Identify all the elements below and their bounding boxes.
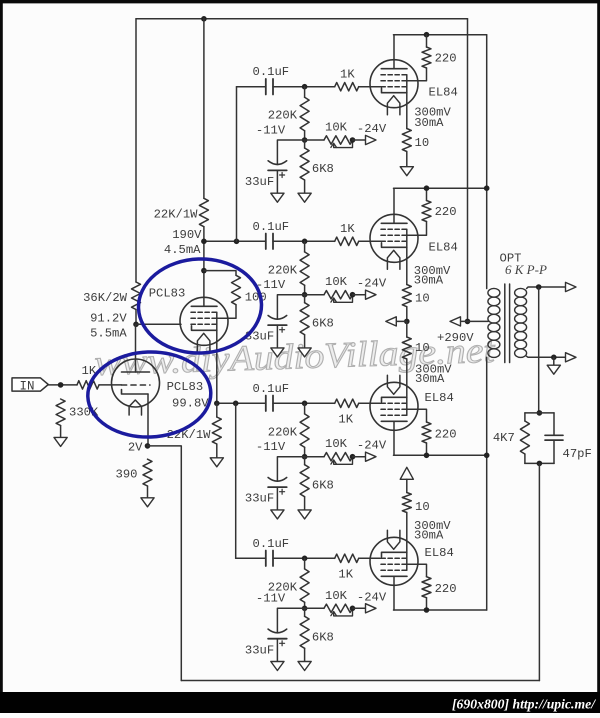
wire stage 1 coupling input <box>237 86 266 88</box>
wire stage 3 grid node <box>273 402 335 404</box>
svg-text:-24V: -24V <box>357 439 387 453</box>
wire pentode plate lead <box>203 241 205 306</box>
ground 390 <box>141 498 154 507</box>
ground 6K8 stage 3 <box>298 510 311 519</box>
resistor 1K grid stopper stage 3 <box>335 399 359 407</box>
tube EL84 stage 1 <box>370 60 418 108</box>
wire 10 to stage 4 cathode <box>406 513 408 553</box>
wire junction to left arrow <box>396 320 407 322</box>
node 10K wiper stage 3 <box>350 454 356 460</box>
node triode plate / pentode grid <box>133 322 139 328</box>
connector stage 4 cathode up arrow <box>400 467 413 479</box>
svg-text:PCL83: PCL83 <box>167 380 204 394</box>
connector output top arrow <box>566 282 577 291</box>
wire 10K to -24V arrow stage 3 <box>353 456 366 458</box>
ground secondary <box>547 365 560 374</box>
svg-text:-11V: -11V <box>256 123 286 137</box>
wire 10 to stage 3 cathode <box>406 359 408 397</box>
svg-text:99.8V: 99.8V <box>172 396 209 410</box>
wire 220 to rail stage 4 <box>426 598 428 610</box>
tube EL84 stage 2 <box>370 214 418 262</box>
svg-text:30mA: 30mA <box>414 529 444 543</box>
node stage 3 rail / OPT feed <box>484 453 490 459</box>
node stage 3 rail / 220 <box>424 453 430 459</box>
resistor 220K stage 4 <box>300 569 309 602</box>
svg-text:220K: 220K <box>268 109 298 123</box>
wire screen lead stage 3 <box>407 409 427 422</box>
resistor 6K8 stage 2 <box>300 303 309 335</box>
node stage 3 grid node <box>302 401 308 407</box>
wire stage 2 coupling input <box>204 240 266 242</box>
svg-text:190V: 190V <box>172 228 202 242</box>
resistor 10 cathode stage 2 <box>402 285 411 307</box>
svg-text:-24V: -24V <box>357 277 387 291</box>
node +290V cathode junction <box>404 319 410 325</box>
connector -24V stage 1 <box>366 135 377 144</box>
node zobel top <box>537 410 543 416</box>
svg-text:10K: 10K <box>325 589 348 603</box>
wire stage 3 220K upper <box>304 403 306 414</box>
svg-text:220K: 220K <box>268 425 298 439</box>
ground input 330K <box>54 437 67 446</box>
svg-text:30mA: 30mA <box>415 372 445 386</box>
wire 1K to grid stage 1 <box>359 86 382 88</box>
svg-text:6 K P-P: 6 K P-P <box>505 262 547 277</box>
svg-text:-11V: -11V <box>256 440 286 454</box>
node +290V on OPT feed <box>465 319 471 325</box>
connector -24V stage 3 <box>366 452 377 461</box>
wire +290V to OPT center tap <box>468 320 489 322</box>
wire 4K7 to bottom <box>524 454 526 463</box>
resistor 1K input <box>77 381 99 389</box>
tube PCL83 pentode <box>180 297 228 345</box>
svg-text:6K8: 6K8 <box>312 317 334 331</box>
node stage 4 rail / 220 <box>424 607 430 613</box>
potentiometer 10K stage 4 <box>324 604 353 612</box>
svg-text:2V: 2V <box>128 440 143 454</box>
wire 22K/1W feed <box>203 19 205 199</box>
wire 33uF to ground stage 4 <box>276 639 278 662</box>
node stage 2 rail / OPT feed <box>484 185 490 191</box>
wire 10K to -24V arrow stage 4 <box>353 607 366 609</box>
wire 1K to grid stage 2 <box>359 240 382 242</box>
svg-text:390: 390 <box>116 467 138 481</box>
node -11V bias stage 4 <box>302 606 308 612</box>
wire 220K to bias node stage 2 <box>304 285 306 294</box>
node stage 4 grid node <box>302 556 308 562</box>
wire 100 to pentode screen <box>217 305 236 319</box>
wire stage 2 cathode <box>406 247 408 284</box>
wire 220K to bias node stage 1 <box>304 131 306 140</box>
wire stage 4 coupling input <box>236 557 266 559</box>
svg-text:1K: 1K <box>338 412 353 426</box>
wire stage 1 cathode <box>406 93 408 129</box>
capacitor 0.1uF stage 2 <box>265 234 267 250</box>
svg-text:0.1uF: 0.1uF <box>253 65 290 79</box>
wire 36K to node <box>135 310 137 325</box>
wire stage 2 plate rail <box>394 187 487 189</box>
svg-text:100: 100 <box>245 291 267 305</box>
wire 390 to ground <box>147 486 149 498</box>
wire 10 to ground stage 1 <box>406 152 408 167</box>
svg-text:220: 220 <box>435 582 457 596</box>
node 2V cathode node <box>145 443 151 449</box>
svg-text:91.2V: 91.2V <box>90 311 127 325</box>
resistor 220K stage 3 <box>300 414 309 447</box>
wire arrow to 10 stage 4 <box>406 479 408 492</box>
resistor 220K stage 1 <box>300 97 309 130</box>
resistor 10 cathode stage 3 <box>402 337 411 359</box>
connector +290V left arrow <box>450 317 461 326</box>
wire stage 2 grid node <box>273 240 335 242</box>
wire plate lead stage 3 <box>393 421 395 455</box>
resistor 6K8 stage 4 <box>300 616 309 648</box>
tube EL84 stage 3 <box>370 382 418 430</box>
tube EL84 stage 4 <box>370 537 418 585</box>
svg-text:0.1uF: 0.1uF <box>253 382 290 396</box>
wire zobel left drop <box>524 413 526 421</box>
annotation blue ellipse upper PCL83 <box>137 257 263 355</box>
resistor 220 screen stage 4 <box>422 577 431 598</box>
wire secondary top lead <box>527 287 566 289</box>
node lower bus junction <box>233 401 239 407</box>
wire stage 4 grid node <box>273 557 335 559</box>
wire 220 to rail stage 1 <box>426 35 428 47</box>
tube PCL83 triode <box>112 359 160 407</box>
wire 220 to rail stage 2 <box>426 188 428 200</box>
connector supply left arrow <box>386 317 397 326</box>
potentiometer 10K stage 2 <box>324 291 353 299</box>
ground 33uF stage 3 <box>271 510 284 519</box>
resistor 330K input <box>56 399 65 426</box>
connector IN flag <box>12 378 48 391</box>
svg-text:33uF: 33uF <box>245 175 274 189</box>
node pentode plate rail <box>201 239 207 245</box>
wire bias node to 10K stage 3 <box>305 456 324 458</box>
wire stage 4 plate rail <box>394 609 487 611</box>
wire bias node to 6K8 stage 3 <box>304 457 306 465</box>
wire bias node to 10K stage 4 <box>305 607 324 609</box>
svg-text:1K: 1K <box>338 567 353 581</box>
wire 6K8 to ground stage 1 <box>304 180 306 193</box>
resistor 220 screen stage 2 <box>422 201 431 222</box>
svg-text:5.5mA: 5.5mA <box>90 326 127 340</box>
wire upper pair plate rail y34.7 <box>394 34 487 36</box>
wire stage 4 220K upper <box>304 558 306 569</box>
potentiometer 10K stage 3 <box>324 453 353 461</box>
svg-text:10: 10 <box>415 136 430 150</box>
svg-text:33uF: 33uF <box>245 492 274 506</box>
connector -24V stage 2 <box>366 290 377 299</box>
resistor 1K grid stopper stage 1 <box>335 83 359 91</box>
wire bias node to 10K stage 2 <box>305 294 324 296</box>
wire bias node to 33uF stage 3 <box>277 457 304 481</box>
svg-text:47pF: 47pF <box>563 447 592 461</box>
wire 33uF to ground stage 2 <box>276 325 278 348</box>
wire junction to 10 stage 3 <box>406 321 408 337</box>
wire stage 2 220K upper <box>304 241 306 252</box>
svg-text:EL84: EL84 <box>425 546 454 560</box>
resistor 1K grid stopper stage 4 <box>335 554 359 562</box>
wire secondary bottom to ground <box>553 357 555 365</box>
resistor 220 screen stage 3 <box>422 422 431 443</box>
wire 47pF drop <box>553 413 555 435</box>
wire B+ left drop to 36K/2W <box>135 19 137 282</box>
wire 99.8V to 22K lower <box>216 403 218 417</box>
wire stage 1 grid node <box>273 86 335 88</box>
svg-text:EL84: EL84 <box>429 86 458 100</box>
resistor 6K8 stage 3 <box>300 465 309 497</box>
resistor 6K8 stage 1 <box>300 148 309 180</box>
ground 6K8 stage 1 <box>298 193 311 202</box>
wire triode cathode lead <box>147 394 149 446</box>
svg-text:220: 220 <box>435 428 457 442</box>
ground 33uF stage 1 <box>271 193 284 202</box>
wire bias node to 10K stage 1 <box>305 139 324 141</box>
svg-text:1K: 1K <box>340 222 355 236</box>
wire bias node to 6K8 stage 1 <box>304 140 306 148</box>
svg-text:[690x800] http://upic.me/: [690x800] http://upic.me/ <box>452 697 596 712</box>
svg-text:-24V: -24V <box>357 590 387 604</box>
ground 22K/1W lower <box>210 458 223 467</box>
node 10K wiper stage 4 <box>350 606 356 612</box>
svg-text:10K: 10K <box>325 275 348 289</box>
capacitor 33uF stage 4 <box>268 629 287 633</box>
wire triode plate lead <box>135 324 137 372</box>
svg-text:+290V: +290V <box>437 331 474 345</box>
resistor 220 screen stage 1 <box>422 47 431 68</box>
node 99.8V cathode node <box>214 401 220 407</box>
svg-text:10K: 10K <box>325 121 348 135</box>
wire +290V node to arrow <box>458 320 468 322</box>
wire 2V node to feedback <box>148 446 182 681</box>
wire 6K8 to ground stage 4 <box>304 648 306 661</box>
wire 33uF to ground stage 3 <box>276 487 278 510</box>
svg-text:220K: 220K <box>268 263 298 277</box>
svg-text:30mA: 30mA <box>414 116 444 130</box>
ground 6K8 stage 2 <box>298 348 311 357</box>
ground 33uF stage 2 <box>271 348 284 357</box>
connector output bottom arrow <box>566 353 577 362</box>
svg-text:36K/2W: 36K/2W <box>83 291 128 305</box>
wire 100 top <box>204 271 236 276</box>
svg-text:0.1uF: 0.1uF <box>253 220 290 234</box>
wire screen lead stage 2 <box>407 222 427 236</box>
svg-text:33uF: 33uF <box>245 643 274 657</box>
wire 33uF to ground stage 1 <box>276 170 278 193</box>
wire 10K to -24V arrow stage 2 <box>353 294 366 296</box>
svg-text:30mA: 30mA <box>414 274 444 288</box>
capacitor 0.1uF stage 4 <box>265 551 267 567</box>
node junction top rail / 22K feed <box>201 16 207 22</box>
svg-text:6K8: 6K8 <box>312 479 334 493</box>
node secondary bottom tap <box>551 355 557 361</box>
svg-text:-24V: -24V <box>357 122 387 136</box>
wire stage 3 plate rail <box>394 454 487 456</box>
node secondary top tap <box>536 284 542 290</box>
svg-text:10K: 10K <box>325 437 348 451</box>
node -11V bias stage 1 <box>302 137 308 143</box>
svg-text:0.1uF: 0.1uF <box>253 537 290 551</box>
svg-text:4K7: 4K7 <box>493 431 515 445</box>
node -11V bias stage 2 <box>302 292 308 298</box>
resistor 1K grid stopper stage 2 <box>335 237 359 245</box>
border frame <box>0 0 3 692</box>
node zobel bottom <box>537 461 543 467</box>
svg-text:1K: 1K <box>340 67 355 81</box>
svg-text:PCL83: PCL83 <box>149 287 186 301</box>
svg-text:6K8: 6K8 <box>312 630 334 644</box>
wire feedback down <box>538 463 540 680</box>
svg-text:4.5mA: 4.5mA <box>164 243 201 257</box>
resistor 22K/1W cathode load <box>212 417 221 444</box>
transformer OPT secondary winding <box>515 288 527 297</box>
node stage 2 rail / 220 <box>424 185 430 191</box>
wire bus to stage 1 <box>236 87 238 242</box>
svg-text:22K/1W: 22K/1W <box>154 208 199 222</box>
node 10K wiper stage 1 <box>350 137 356 143</box>
potentiometer 10K stage 1 <box>324 136 353 144</box>
wire 6K8 to ground stage 3 <box>304 497 306 510</box>
wire 220K to bias node stage 3 <box>304 447 306 456</box>
node input node <box>58 382 64 388</box>
wire pentode g1 lead <box>136 323 181 325</box>
wire screen lead stage 1 <box>407 68 427 81</box>
capacitor 47pF <box>545 435 563 440</box>
wire bias node to 6K8 stage 4 <box>304 608 306 616</box>
wire 22K lower to ground <box>216 444 218 458</box>
annotation blue ellipse lower PCL83 <box>86 350 212 439</box>
node 10K wiper stage 2 <box>350 292 356 298</box>
svg-text:6K8: 6K8 <box>312 162 334 176</box>
resistor 10 cathode stage 1 <box>402 129 411 152</box>
wire 1K to triode grid <box>99 384 122 386</box>
wire zobel top bar <box>525 412 554 414</box>
capacitor 33uF stage 2 <box>268 316 287 320</box>
svg-text:EL84: EL84 <box>425 391 454 405</box>
svg-text:EL84: EL84 <box>429 240 458 254</box>
transformer OPT core <box>505 284 510 363</box>
svg-text:10: 10 <box>415 341 430 355</box>
node stage 1 grid node <box>302 84 308 90</box>
wire 220K to bias node stage 4 <box>304 602 306 608</box>
wire stage 1 220K upper <box>304 87 306 98</box>
resistor 220K stage 2 <box>300 252 309 285</box>
wire 47pF to bottom <box>553 440 555 463</box>
resistor 10 cathode stage 4 <box>402 493 411 513</box>
wire 22K to plate node <box>203 227 205 242</box>
wire IN to node <box>48 384 77 386</box>
wire bias node to 33uF stage 1 <box>277 140 304 164</box>
wire feedback bottom rail <box>181 680 539 682</box>
capacitor 0.1uF stage 3 <box>265 396 267 412</box>
node 100 tee <box>201 268 207 274</box>
wire bias node to 33uF stage 2 <box>277 295 304 319</box>
wire secondary tap to zobel <box>538 287 540 413</box>
wire pentode cathode lead <box>216 330 218 403</box>
svg-text:10: 10 <box>415 292 430 306</box>
wire stage 3 coupling input <box>217 402 266 404</box>
wire OPT primary top feed <box>486 35 488 289</box>
resistor 100 screen PCL83 <box>232 275 241 304</box>
capacitor 33uF stage 1 <box>268 161 287 165</box>
ground stage 1 cathode <box>400 167 413 176</box>
ground 33uF stage 4 <box>271 662 284 671</box>
ground 6K8 stage 4 <box>298 662 311 671</box>
wire 6K8 to ground stage 2 <box>304 335 306 348</box>
node -11V bias stage 3 <box>302 454 308 460</box>
node 220 top stage1 <box>424 32 430 38</box>
node stage 2 grid node <box>302 239 308 245</box>
wire B+ top rail <box>136 18 468 20</box>
transformer OPT primary winding <box>488 288 500 297</box>
resistor 36K/2W <box>132 282 141 310</box>
resistor 4K7 feedback <box>520 421 529 454</box>
svg-text:220: 220 <box>435 52 457 66</box>
wire lower bus to stage 4 <box>235 403 237 558</box>
wire OPT primary bottom feed <box>486 357 488 610</box>
svg-text:IN: IN <box>20 379 35 393</box>
wire B+ right drop to +290V node <box>467 19 469 322</box>
connector -24V stage 4 <box>366 604 377 613</box>
wire plate lead stage 4 <box>393 576 395 610</box>
wire plate lead stage 1 <box>393 35 395 69</box>
wire 1K to grid stage 3 <box>359 402 382 404</box>
svg-text:220: 220 <box>435 205 457 219</box>
wire bias node to 33uF stage 4 <box>277 608 304 632</box>
node stage2 bus junction <box>234 239 240 245</box>
wire 10K to -24V arrow stage 1 <box>353 139 366 141</box>
wire screen lead stage 4 <box>407 564 427 576</box>
wire secondary bottom lead <box>527 356 566 357</box>
bottom bar <box>0 692 600 713</box>
svg-text:-11V: -11V <box>256 592 286 606</box>
resistor 390 cathode <box>143 459 152 486</box>
svg-text:10: 10 <box>415 500 430 514</box>
wire 10 to +290V node stage 2 <box>406 307 408 322</box>
capacitor 33uF stage 3 <box>268 478 287 482</box>
wire bias node to 6K8 stage 2 <box>304 295 306 303</box>
wire 1K to grid stage 4 <box>359 557 382 559</box>
wire 220 to rail stage 3 <box>426 443 428 455</box>
wire zobel bottom bar <box>525 462 554 464</box>
wire plate lead stage 2 <box>393 188 395 223</box>
capacitor 0.1uF stage 1 <box>265 79 267 95</box>
wire 330K to ground <box>60 426 62 438</box>
resistor 22K/1W (driver plate load) <box>199 198 208 226</box>
